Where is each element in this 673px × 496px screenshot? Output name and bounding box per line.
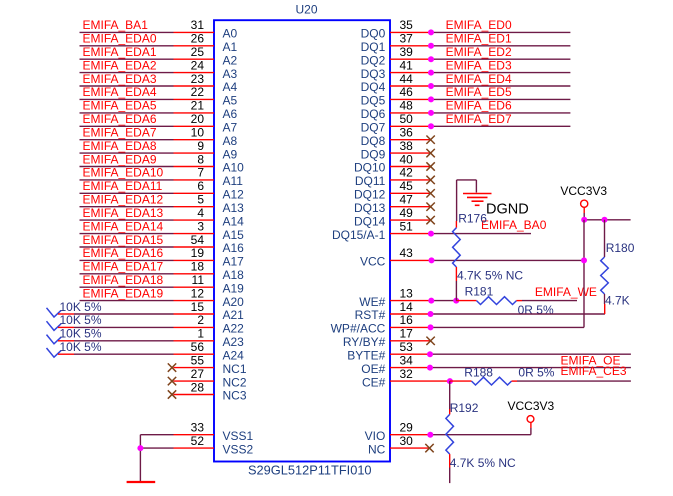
svg-text:DQ10: DQ10	[354, 161, 386, 175]
pin A21 (pin 15) with 10K 5% pull resistor stub	[47, 300, 245, 322]
svg-text:DQ2: DQ2	[361, 53, 386, 67]
svg-text:EMIFA_ED5: EMIFA_ED5	[446, 85, 512, 99]
svg-text:15: 15	[191, 300, 205, 314]
svg-text:RY/BY#: RY/BY#	[343, 335, 386, 349]
svg-text:VSS2: VSS2	[223, 442, 254, 456]
svg-text:29: 29	[400, 421, 414, 435]
svg-text:50: 50	[400, 112, 414, 126]
resistor R180 4.7K pullup	[601, 220, 635, 314]
pin OE# (pin 34) net EMIFA_OE	[361, 353, 631, 376]
svg-text:A20: A20	[223, 295, 245, 309]
svg-text:35: 35	[400, 18, 414, 32]
pin VSS2 (pin 52) wire to ground	[140, 434, 253, 456]
svg-text:DQ14: DQ14	[354, 214, 386, 228]
svg-text:24: 24	[191, 58, 205, 72]
svg-text:49: 49	[400, 206, 414, 220]
svg-text:WP#/ACC: WP#/ACC	[331, 322, 386, 336]
svg-text:DQ4: DQ4	[361, 80, 386, 94]
pin DQ4 (pin 44) net EMIFA_ED4 : wire, dot, label	[361, 72, 571, 94]
svg-text:23: 23	[191, 72, 205, 86]
svg-text:2: 2	[197, 313, 204, 327]
svg-text:25: 25	[191, 45, 205, 59]
svg-text:A11: A11	[223, 174, 244, 188]
svg-text:20: 20	[191, 112, 205, 126]
pin A11 (pin 7) net EMIFA_EDA10 : wire, label, number, name	[80, 166, 244, 188]
svg-text:47: 47	[400, 193, 414, 207]
pin DQ12 (pin 45) no-connect X	[354, 179, 435, 201]
pin DQ1 (pin 37) net EMIFA_ED1 : wire, dot, label	[361, 32, 571, 54]
svg-text:VSS1: VSS1	[223, 429, 254, 443]
svg-text:EMIFA_BA0: EMIFA_BA0	[481, 218, 547, 232]
svg-text:EMIFA_ED4: EMIFA_ED4	[446, 72, 512, 86]
svg-text:EMIFA_BA1: EMIFA_BA1	[83, 18, 149, 32]
pin A13 (pin 5) net EMIFA_EDA12 : wire, label, number, name	[80, 193, 245, 215]
svg-text:10K 5%: 10K 5%	[60, 313, 102, 327]
power VCC3V3 symbol bottom	[508, 399, 555, 435]
svg-text:VIO: VIO	[365, 429, 386, 443]
svg-text:EMIFA_EDA12: EMIFA_EDA12	[83, 193, 164, 207]
pin A19 (pin 11) net EMIFA_EDA18 : wire, label, number, name	[80, 273, 245, 295]
svg-text:13: 13	[400, 286, 414, 300]
svg-text:A10: A10	[223, 161, 245, 175]
power VCC3V3 symbol top right	[560, 184, 607, 220]
pin A16 (pin 54) net EMIFA_EDA15 : wire, label, number, name	[80, 233, 245, 255]
svg-text:4.7K 5% NC: 4.7K 5% NC	[450, 456, 516, 470]
svg-text:EMIFA_EDA13: EMIFA_EDA13	[83, 206, 164, 220]
pin BYTE# (pin 53) wire	[347, 340, 631, 362]
svg-text:38: 38	[400, 139, 414, 153]
svg-text:U20: U20	[296, 3, 318, 17]
pin A14 (pin 4) net EMIFA_EDA13 : wire, label, number, name	[80, 206, 245, 228]
svg-text:A6: A6	[223, 107, 238, 121]
svg-text:26: 26	[191, 32, 205, 46]
svg-text:6: 6	[197, 179, 204, 193]
pin NC2 (pin 27) no-connect X	[168, 367, 247, 389]
svg-text:52: 52	[191, 434, 205, 448]
svg-text:R188: R188	[464, 366, 493, 380]
svg-text:DQ8: DQ8	[361, 134, 386, 148]
svg-text:27: 27	[191, 367, 205, 381]
svg-text:EMIFA_EDA19: EMIFA_EDA19	[83, 286, 164, 300]
svg-text:45: 45	[400, 179, 414, 193]
svg-text:DQ11: DQ11	[355, 174, 386, 188]
svg-text:53: 53	[400, 340, 414, 354]
wire DGND hook riser	[457, 180, 477, 221]
pin A10 (pin 8) net EMIFA_EDA9 : wire, label, number, name	[80, 152, 245, 174]
pin NC3 (pin 28) no-connect X	[168, 380, 247, 402]
svg-text:DQ7: DQ7	[361, 121, 386, 135]
svg-text:44: 44	[400, 72, 414, 86]
svg-text:NC2: NC2	[223, 375, 247, 389]
svg-text:DGND: DGND	[486, 202, 529, 218]
svg-text:30: 30	[400, 434, 414, 448]
svg-text:EMIFA_EDA8: EMIFA_EDA8	[83, 139, 157, 153]
svg-text:VCC3V3: VCC3V3	[560, 184, 607, 198]
pin DQ15/A-1 (pin 51) net EMIFA_BA0	[332, 218, 547, 242]
svg-text:A5: A5	[223, 94, 238, 108]
resistor R188 0R 5%	[450, 366, 631, 386]
svg-text:4: 4	[197, 206, 204, 220]
svg-text:DQ5: DQ5	[361, 94, 386, 108]
svg-text:34: 34	[400, 353, 414, 367]
pin A15 (pin 3) net EMIFA_EDA14 : wire, label, number, name	[80, 219, 245, 241]
junction rail at R180	[602, 217, 608, 223]
svg-text:EMIFA_EDA16: EMIFA_EDA16	[83, 246, 164, 260]
svg-text:36: 36	[400, 126, 414, 140]
svg-text:EMIFA_EDA7: EMIFA_EDA7	[83, 126, 157, 140]
svg-text:14: 14	[400, 300, 414, 314]
svg-text:A1: A1	[223, 40, 238, 54]
svg-text:A2: A2	[223, 53, 238, 67]
wire VSS vertical down to ground	[139, 435, 141, 482]
svg-text:A8: A8	[223, 134, 238, 148]
svg-text:10K 5%: 10K 5%	[60, 327, 102, 341]
svg-text:DQ9: DQ9	[361, 147, 386, 161]
svg-text:A12: A12	[223, 188, 245, 202]
pin NC1 (pin 55) no-connect X	[168, 353, 247, 375]
ground symbol bottom left (clipped)	[127, 481, 156, 483]
pin DQ2 (pin 39) net EMIFA_ED2 : wire, dot, label	[361, 45, 571, 67]
svg-text:A21: A21	[223, 308, 245, 322]
svg-text:4.7K: 4.7K	[605, 294, 630, 308]
svg-text:EMIFA_EDA17: EMIFA_EDA17	[83, 260, 164, 274]
svg-text:EMIFA_EDA10: EMIFA_EDA10	[83, 166, 164, 180]
pin CE# (pin 32) net EMIFA_CE3 via R188	[362, 367, 453, 389]
svg-text:51: 51	[400, 219, 414, 233]
pin DQ0 (pin 35) net EMIFA_ED0 : wire, dot, label	[361, 18, 571, 40]
svg-text:10K 5%: 10K 5%	[60, 300, 102, 314]
pin A7 (pin 20) net EMIFA_EDA6 : wire, label, number, name	[80, 112, 238, 134]
junction VCC wire	[581, 257, 587, 263]
pin A0 (pin 31) net EMIFA_BA1 : wire, label, number, name	[80, 18, 238, 40]
svg-text:A4: A4	[223, 80, 238, 94]
pin WP#/ACC (pin 16) wire tied to VCC3V3	[331, 313, 584, 335]
svg-text:DQ13: DQ13	[354, 201, 386, 215]
svg-text:56: 56	[191, 340, 205, 354]
pin A17 (pin 19) net EMIFA_EDA16 : wire, label, number, name	[80, 246, 245, 268]
svg-text:18: 18	[191, 260, 205, 274]
svg-text:A13: A13	[223, 201, 245, 215]
svg-text:EMIFA_ED3: EMIFA_ED3	[446, 58, 512, 72]
svg-text:A23: A23	[223, 335, 245, 349]
svg-text:33: 33	[191, 421, 205, 435]
svg-text:VCC3V3: VCC3V3	[508, 399, 555, 413]
svg-text:R192: R192	[450, 401, 479, 415]
wire VCC3V3 rail	[584, 219, 630, 221]
svg-text:NC: NC	[368, 442, 386, 456]
svg-text:DQ0: DQ0	[361, 27, 386, 41]
svg-text:41: 41	[400, 58, 414, 72]
pin A4 (pin 23) net EMIFA_EDA3 : wire, label, number, name	[80, 72, 238, 94]
svg-text:RST#: RST#	[355, 308, 386, 322]
pin VCC (pin 43) wire to VCC3V3	[360, 246, 584, 268]
svg-text:0R 5%: 0R 5%	[518, 366, 554, 380]
svg-text:EMIFA_EDA0: EMIFA_EDA0	[83, 32, 157, 46]
pin WE# (pin 13) net EMIFA_WE via R181	[359, 286, 459, 308]
pin DQ8 (pin 36) no-connect X	[361, 126, 435, 148]
svg-text:12: 12	[191, 286, 205, 300]
svg-text:1: 1	[197, 327, 204, 341]
svg-text:28: 28	[191, 380, 205, 394]
svg-text:DQ15/A-1: DQ15/A-1	[332, 228, 386, 242]
svg-text:39: 39	[400, 45, 414, 59]
pin A18 (pin 18) net EMIFA_EDA17 : wire, label, number, name	[80, 260, 245, 282]
pin DQ13 (pin 47) no-connect X	[354, 193, 435, 215]
svg-text:EMIFA_EDA4: EMIFA_EDA4	[83, 85, 157, 99]
svg-text:VCC: VCC	[360, 255, 386, 269]
svg-text:CE#: CE#	[362, 375, 386, 389]
svg-text:3: 3	[197, 219, 204, 233]
svg-text:EMIFA_EDA3: EMIFA_EDA3	[83, 72, 157, 86]
svg-text:EMIFA_WE: EMIFA_WE	[535, 285, 597, 299]
svg-text:A9: A9	[223, 147, 238, 161]
ground DGND symbol	[463, 194, 529, 218]
svg-text:22: 22	[191, 85, 205, 99]
pin DQ11 (pin 42) no-connect X	[355, 166, 435, 188]
svg-text:55: 55	[191, 353, 205, 367]
svg-text:S29GL512P11TFI010: S29GL512P11TFI010	[248, 463, 372, 478]
svg-text:37: 37	[400, 32, 414, 46]
svg-text:9: 9	[197, 139, 204, 153]
svg-text:NC3: NC3	[223, 389, 247, 403]
resistor R176 4.7K 5% NC	[453, 212, 524, 301]
svg-text:46: 46	[400, 85, 414, 99]
svg-text:EMIFA_EDA14: EMIFA_EDA14	[83, 219, 164, 233]
svg-text:NC1: NC1	[223, 362, 247, 376]
pin VIO (pin 29) wire to VCC3V3	[365, 421, 531, 443]
pin A12 (pin 6) net EMIFA_EDA11 : wire, label, number, name	[80, 179, 245, 201]
svg-text:5: 5	[197, 193, 204, 207]
pin DQ14 (pin 49) no-connect X	[354, 206, 435, 228]
svg-text:EMIFA_ED1: EMIFA_ED1	[446, 32, 512, 46]
pin A24 (pin 56) with 10K 5% pull resistor stub	[47, 340, 245, 362]
svg-text:A14: A14	[223, 214, 245, 228]
pin DQ7 (pin 50) net EMIFA_ED7 : wire, dot, label	[361, 112, 571, 134]
svg-text:DQ1: DQ1	[361, 40, 386, 54]
svg-text:EMIFA_ED0: EMIFA_ED0	[446, 18, 512, 32]
svg-text:OE#: OE#	[361, 362, 385, 376]
svg-text:EMIFA_EDA2: EMIFA_EDA2	[83, 58, 157, 72]
svg-text:A24: A24	[223, 348, 245, 362]
svg-text:16: 16	[400, 313, 414, 327]
resistor R181 0R 5%	[456, 284, 577, 316]
svg-text:EMIFA_ED2: EMIFA_ED2	[446, 45, 512, 59]
svg-text:A16: A16	[223, 241, 245, 255]
svg-text:EMIFA_EDA1: EMIFA_EDA1	[83, 45, 157, 59]
pin VSS1 (pin 33) wire to ground	[140, 421, 253, 443]
svg-text:A18: A18	[223, 268, 245, 282]
pin RST# (pin 14) wire to R180 pullup	[355, 300, 605, 322]
svg-text:EMIFA_EDA9: EMIFA_EDA9	[83, 152, 157, 166]
svg-text:DQ3: DQ3	[361, 67, 386, 81]
pin A6 (pin 21) net EMIFA_EDA5 : wire, label, number, name	[80, 99, 238, 121]
IC U20 body (flash memory S29GL512P11TFI010)	[214, 20, 390, 461]
svg-text:WE#: WE#	[359, 295, 385, 309]
svg-text:10K 5%: 10K 5%	[60, 340, 102, 354]
pin DQ9 (pin 38) no-connect X	[361, 139, 435, 161]
pin DQ3 (pin 41) net EMIFA_ED3 : wire, dot, label	[361, 58, 571, 80]
svg-text:19: 19	[191, 246, 205, 260]
svg-text:A15: A15	[223, 228, 245, 242]
svg-text:10: 10	[191, 126, 205, 140]
pin A5 (pin 22) net EMIFA_EDA4 : wire, label, number, name	[80, 85, 238, 107]
svg-text:42: 42	[400, 166, 414, 180]
resistor R192 4.7K 5% NC	[446, 381, 516, 483]
junction rail at VCC3V3	[581, 217, 587, 223]
pin RY/BY# (pin 17) no-connect X	[343, 327, 435, 349]
svg-text:EMIFA_EDA11: EMIFA_EDA11	[83, 179, 163, 193]
svg-text:40: 40	[400, 152, 414, 166]
pin A1 (pin 26) net EMIFA_EDA0 : wire, label, number, name	[80, 32, 238, 54]
svg-text:EMIFA_EDA18: EMIFA_EDA18	[83, 273, 164, 287]
svg-text:R176: R176	[458, 212, 487, 226]
pin A20 (pin 12) net EMIFA_EDA19 : wire, label, number, name	[80, 286, 245, 308]
svg-text:A3: A3	[223, 67, 238, 81]
svg-text:EMIFA_EDA15: EMIFA_EDA15	[83, 233, 164, 247]
svg-text:EMIFA_EDA6: EMIFA_EDA6	[83, 112, 157, 126]
svg-text:54: 54	[191, 233, 205, 247]
pin NC (pin 30) no-connect X	[368, 434, 434, 456]
pin A3 (pin 24) net EMIFA_EDA2 : wire, label, number, name	[80, 58, 238, 80]
pin A9 (pin 9) net EMIFA_EDA8 : wire, label, number, name	[80, 139, 238, 161]
pin DQ10 (pin 40) no-connect X	[354, 152, 435, 174]
pin DQ6 (pin 48) net EMIFA_ED6 : wire, dot, label	[361, 99, 571, 121]
svg-text:BYTE#: BYTE#	[347, 348, 385, 362]
svg-text:48: 48	[400, 99, 414, 113]
svg-text:A19: A19	[223, 281, 245, 295]
pin A22 (pin 2) with 10K 5% pull resistor stub	[47, 313, 245, 335]
svg-text:EMIFA_EDA5: EMIFA_EDA5	[83, 99, 157, 113]
svg-text:A17: A17	[223, 255, 245, 269]
svg-text:EMIFA_ED6: EMIFA_ED6	[446, 99, 512, 113]
svg-text:DQ12: DQ12	[354, 188, 386, 202]
pin A8 (pin 10) net EMIFA_EDA7 : wire, label, number, name	[80, 126, 238, 148]
svg-text:21: 21	[191, 99, 205, 113]
svg-text:A0: A0	[223, 27, 238, 41]
svg-text:DQ6: DQ6	[361, 107, 386, 121]
junction VSS2 tee	[137, 445, 143, 451]
svg-text:R180: R180	[606, 241, 635, 255]
svg-text:EMIFA_CE3: EMIFA_CE3	[561, 364, 627, 378]
svg-text:8: 8	[197, 152, 204, 166]
svg-text:A7: A7	[223, 121, 238, 135]
svg-text:A22: A22	[223, 322, 245, 336]
svg-text:31: 31	[191, 18, 205, 32]
svg-text:11: 11	[192, 273, 205, 287]
pin A2 (pin 25) net EMIFA_EDA1 : wire, label, number, name	[80, 45, 238, 67]
svg-text:R181: R181	[465, 284, 494, 298]
wire vertical VCC3V3 to VCC and WP#/ACC	[583, 220, 585, 328]
svg-text:4.7K 5% NC: 4.7K 5% NC	[457, 269, 523, 283]
pin DQ5 (pin 46) net EMIFA_ED5 : wire, dot, label	[361, 85, 571, 107]
svg-text:43: 43	[400, 246, 414, 260]
svg-text:EMIFA_ED7: EMIFA_ED7	[446, 112, 512, 126]
svg-text:32: 32	[400, 367, 414, 381]
svg-text:17: 17	[400, 327, 414, 341]
svg-text:7: 7	[197, 166, 204, 180]
pin A23 (pin 1) with 10K 5% pull resistor stub	[47, 327, 245, 349]
